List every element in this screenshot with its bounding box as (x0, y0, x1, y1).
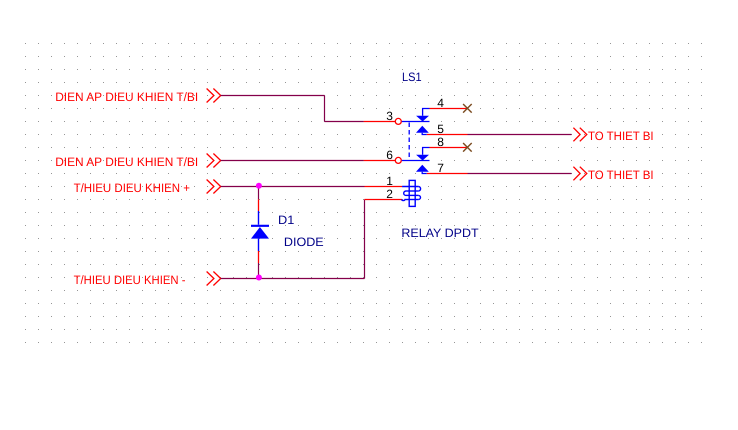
pin 6 circle (395, 157, 401, 163)
pin 3 lead (364, 121, 395, 123)
svg-text:2: 2 (386, 187, 393, 201)
wire row 3 (221, 186, 365, 188)
diode bottom pin lead (258, 251, 260, 263)
wire pin 7 to connector (468, 173, 572, 175)
pin 4 lead (430, 108, 468, 110)
wire row 1 horizontal (221, 95, 325, 97)
svg-text:LS1: LS1 (402, 70, 422, 84)
svg-text:DIEN AP DIEU KHIEN T/BI: DIEN AP DIEU KHIEN T/BI (55, 155, 198, 169)
svg-text:DIEN AP DIEU KHIEN T/BI: DIEN AP DIEU KHIEN T/BI (55, 90, 198, 104)
pin 1 lead (365, 186, 403, 188)
pin 8 lead (430, 147, 468, 149)
svg-text:TO THIET BI: TO THIET BI (588, 129, 654, 143)
diode branch wire lower (258, 263, 260, 279)
relay coil windings (402, 187, 421, 201)
wire row 4 (221, 278, 365, 280)
relay contact A NC arrow (416, 116, 429, 122)
svg-text:T/HIEU DIEU KHIEN -: T/HIEU DIEU KHIEN - (74, 273, 186, 287)
relay contact B NC arrow (416, 155, 429, 161)
no-connect X pin 4 (463, 104, 472, 113)
off-page connector TO THIET BI (top) (573, 128, 586, 142)
pin 6 lead (364, 160, 395, 162)
wire vertical to pin 2 (364, 200, 366, 279)
wire row 1 vertical drop (324, 96, 326, 122)
diode branch wire upper (258, 187, 260, 200)
svg-text:T/HIEU DIEU KHIEN +: T/HIEU DIEU KHIEN + (74, 181, 190, 195)
svg-text:6: 6 (386, 148, 393, 162)
mechanical link dashed line (408, 123, 410, 160)
svg-text:7: 7 (437, 161, 444, 175)
off-page connector row 3 (207, 180, 221, 194)
off-page connector row 2 (207, 154, 221, 168)
svg-text:1: 1 (386, 174, 393, 188)
relay contact B NO arrow (416, 165, 429, 172)
pin 2 lead (365, 199, 403, 201)
relay coil core rectangle (409, 180, 415, 206)
pin 7 lead (427, 173, 468, 175)
pin 5 lead (427, 134, 468, 136)
off-page connector row 1 (207, 89, 221, 103)
svg-text:D1: D1 (278, 213, 295, 227)
diode D1 (251, 211, 269, 251)
no-connect X pin 8 (463, 143, 472, 152)
off-page connector row 4 (207, 272, 221, 286)
relay contact B common line (402, 160, 430, 162)
pin 3 circle (395, 118, 401, 124)
svg-text:8: 8 (437, 135, 444, 149)
pin 5 stub (422, 133, 427, 135)
wire to pin 3 (325, 121, 364, 123)
svg-text:3: 3 (386, 109, 393, 123)
svg-text:4: 4 (437, 96, 444, 110)
wire pin 5 to connector (468, 134, 572, 136)
relay contact A NO arrow (416, 126, 429, 133)
svg-text:DIODE: DIODE (284, 235, 324, 249)
pin 4 stub (423, 109, 430, 116)
svg-text:TO THIET BI: TO THIET BI (588, 168, 654, 182)
wire row 2 (221, 160, 364, 162)
pin 8 stub (423, 148, 430, 155)
off-page connector TO THIET BI (bottom) (573, 167, 586, 181)
svg-text:RELAY DPDT: RELAY DPDT (401, 226, 479, 240)
relay contact A common line (402, 121, 430, 123)
pin 7 stub (422, 172, 427, 174)
junction node B (256, 275, 262, 281)
diode top pin lead (258, 199, 260, 211)
junction node A (256, 183, 262, 189)
